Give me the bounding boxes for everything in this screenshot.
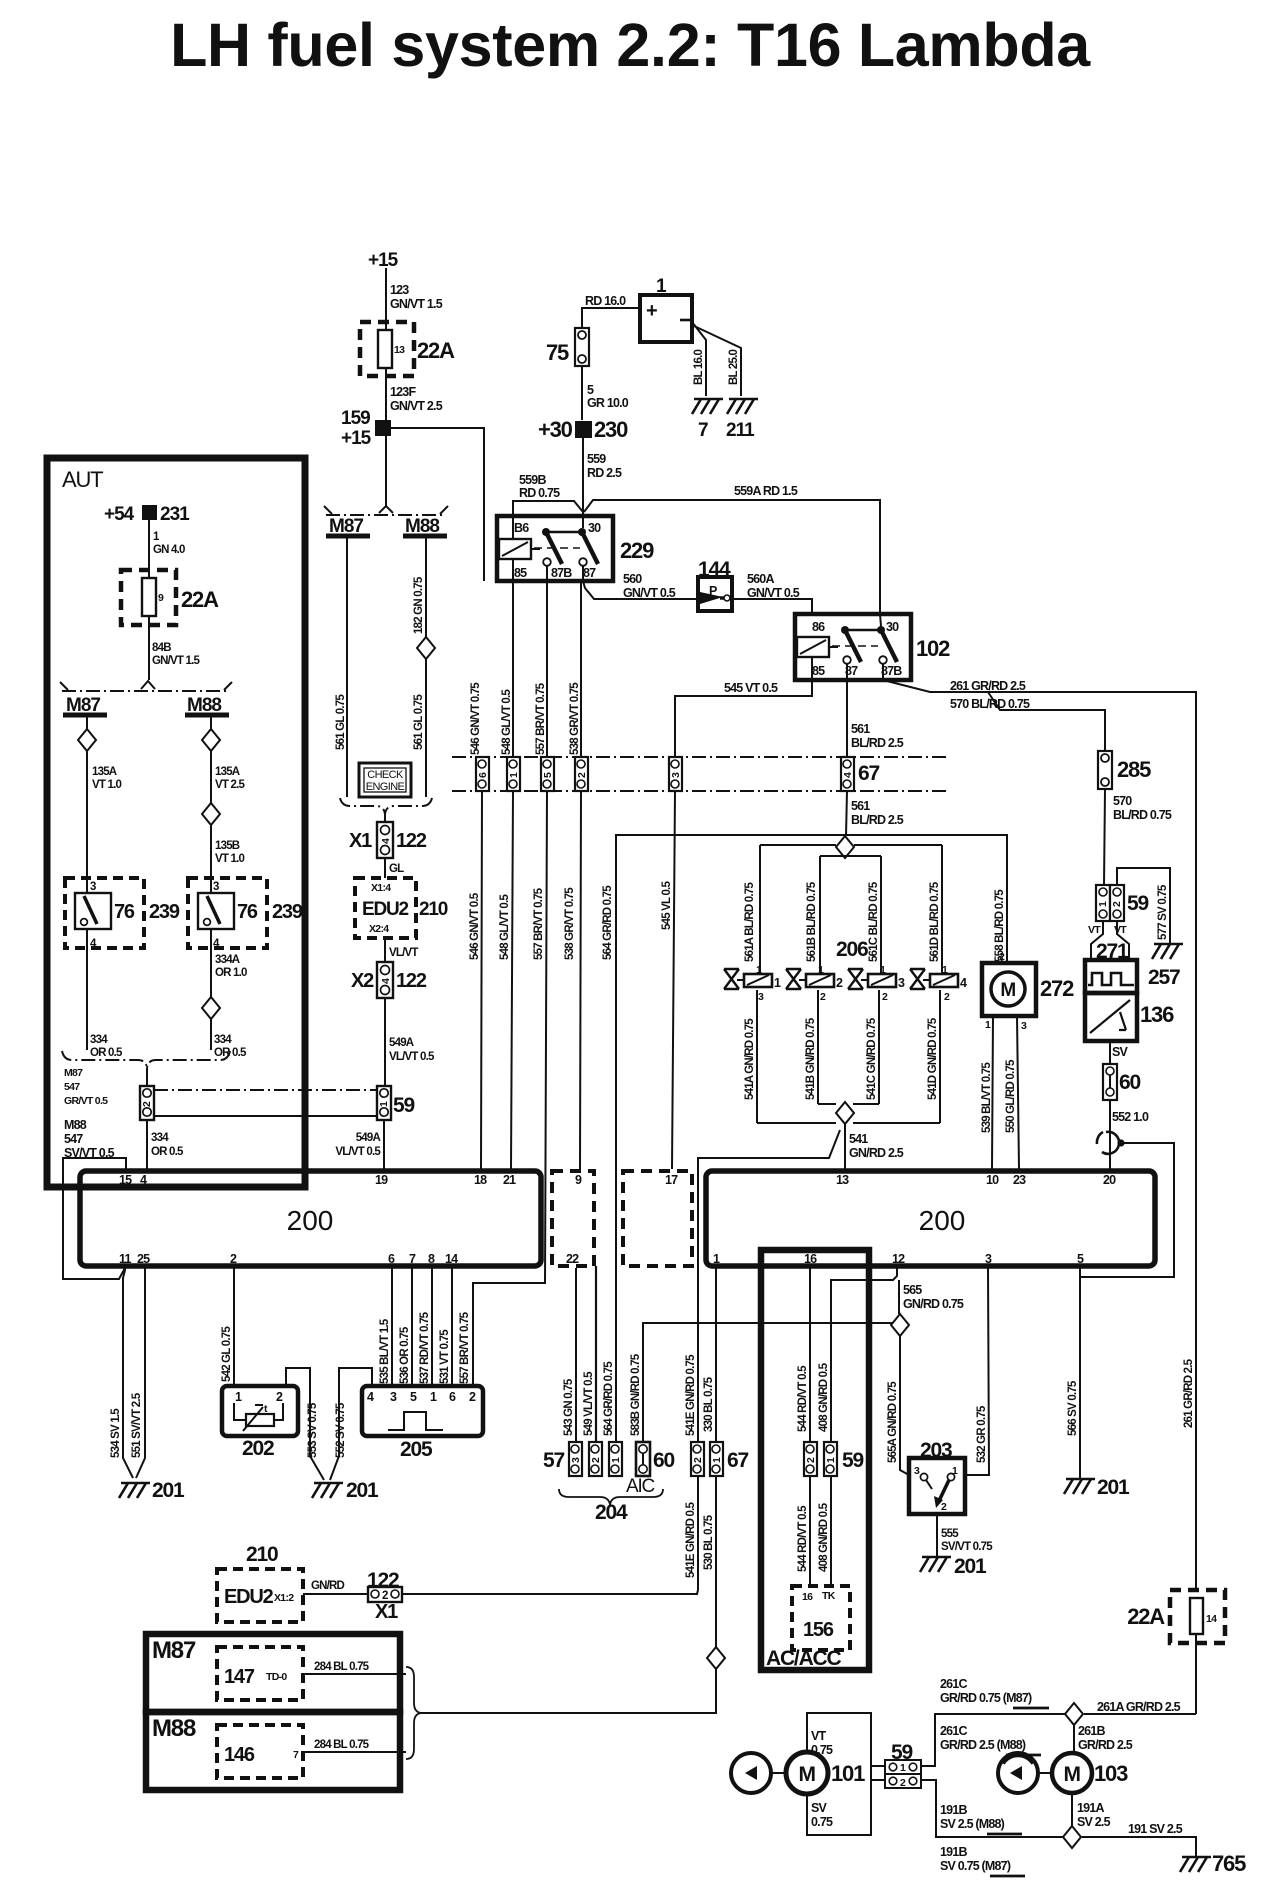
connector 60 AIC bbox=[636, 1442, 650, 1476]
svg-text:+54: +54 bbox=[104, 504, 135, 525]
svg-text:231: 231 bbox=[160, 504, 190, 525]
injector 3 bbox=[848, 964, 905, 1003]
svg-text:547: 547 bbox=[64, 1132, 83, 1146]
wire 561 BL/RD 2.5 bbox=[846, 680, 848, 757]
wire 532 GR 0.75 from pin 3 bbox=[965, 1268, 989, 1475]
wire 408 GN/RD 0.5 bbox=[831, 1268, 897, 1442]
svg-text:552 1.0: 552 1.0 bbox=[1112, 1110, 1149, 1124]
svg-text:+: + bbox=[646, 300, 657, 322]
wires into 271 bbox=[1091, 921, 1103, 960]
svg-text:532 GR 0.75: 532 GR 0.75 bbox=[976, 1405, 988, 1463]
svg-text:GR 10.0: GR 10.0 bbox=[587, 396, 629, 410]
svg-text:GN/VT 0.5: GN/VT 0.5 bbox=[747, 586, 800, 600]
svg-text:1: 1 bbox=[880, 964, 886, 976]
svg-text:18: 18 bbox=[474, 1173, 487, 1187]
wire 543 GN 0.75 from pin 22 bbox=[575, 1268, 577, 1442]
svg-text:85: 85 bbox=[514, 566, 527, 580]
svg-text:239: 239 bbox=[272, 901, 303, 923]
svg-text:BL/RD 2.5: BL/RD 2.5 bbox=[851, 736, 904, 750]
svg-text:1: 1 bbox=[713, 1252, 720, 1266]
svg-text:2: 2 bbox=[820, 991, 826, 1003]
svg-text:122: 122 bbox=[396, 830, 427, 852]
wire bbox=[146, 1068, 148, 1086]
svg-text:545 VT 0.5: 545 VT 0.5 bbox=[724, 681, 778, 695]
svg-text:284 BL 0.75: 284 BL 0.75 bbox=[314, 1739, 370, 1751]
svg-text:GR/RD 2.5: GR/RD 2.5 bbox=[1078, 1738, 1133, 1752]
svg-text:559: 559 bbox=[587, 452, 606, 466]
svg-text:564 GR/RD 0.75: 564 GR/RD 0.75 bbox=[602, 885, 614, 960]
svg-text:191B: 191B bbox=[940, 1803, 967, 1817]
svg-text:182 GN 0.75: 182 GN 0.75 bbox=[413, 576, 425, 634]
wire 552 SV 0.75 bbox=[330, 1368, 372, 1480]
svg-text:561: 561 bbox=[851, 722, 870, 736]
svg-text:1: 1 bbox=[378, 1101, 390, 1107]
svg-text:13: 13 bbox=[836, 1173, 849, 1187]
svg-text:GN/RD 2.5: GN/RD 2.5 bbox=[849, 1146, 904, 1160]
svg-text:RD 2.5: RD 2.5 bbox=[587, 466, 622, 480]
M87/M88 alternative bus (dash-dot) bbox=[62, 690, 230, 692]
svg-text:537 RD/VT 0.75: 537 RD/VT 0.75 bbox=[419, 1311, 431, 1384]
svg-text:530 BL 0.75: 530 BL 0.75 bbox=[703, 1514, 715, 1570]
wires pins 6,7,8,14 bbox=[391, 1268, 393, 1386]
svg-text:1: 1 bbox=[430, 1390, 437, 1404]
svg-text:135A: 135A bbox=[215, 766, 240, 778]
wire 577 SV 0.75 to ground 257 bbox=[1117, 868, 1170, 943]
svg-text:21: 21 bbox=[503, 1173, 516, 1187]
svg-text:67: 67 bbox=[727, 1449, 748, 1472]
connector 59 (lambda) bbox=[1096, 885, 1110, 921]
svg-text:59: 59 bbox=[393, 1094, 414, 1117]
svg-text:5: 5 bbox=[542, 772, 554, 778]
svg-text:1: 1 bbox=[1097, 901, 1109, 907]
wire 261 GR/RD 2.5 bbox=[883, 680, 1196, 1590]
svg-text:583B GN/RD 0.75: 583B GN/RD 0.75 bbox=[630, 1353, 642, 1436]
svg-text:+30: +30 bbox=[538, 417, 573, 442]
lambda sensor 136 bbox=[1085, 993, 1137, 1041]
wire 566 SV 0.75 from pin 5 to ground 201 bbox=[1079, 1268, 1081, 1478]
svg-text:546 GN/VT 0.75: 546 GN/VT 0.75 bbox=[470, 682, 482, 755]
svg-text:555: 555 bbox=[941, 1528, 959, 1540]
brace joining 284 wires bbox=[406, 1667, 421, 1759]
svg-text:1: 1 bbox=[774, 976, 781, 990]
svg-text:+15: +15 bbox=[341, 428, 372, 449]
svg-text:548 GL/VT 0.5: 548 GL/VT 0.5 bbox=[501, 689, 513, 755]
svg-text:159: 159 bbox=[341, 408, 370, 429]
svg-text:557 BR/VT 0.75: 557 BR/VT 0.75 bbox=[535, 682, 547, 755]
svg-text:541A GN/RD 0.75: 541A GN/RD 0.75 bbox=[744, 1018, 756, 1100]
connector 67 pin 2 bbox=[575, 757, 588, 791]
M87 unit box bbox=[146, 1634, 400, 1712]
svg-text:M: M bbox=[799, 1763, 816, 1786]
svg-text:408 GN/RD 0.5: 408 GN/RD 0.5 bbox=[818, 1502, 830, 1572]
fuse 60 bbox=[1103, 1064, 1117, 1100]
wire 530 BL 0.75 with splice diamond bbox=[715, 1476, 717, 1647]
svg-text:211: 211 bbox=[726, 420, 755, 441]
svg-text:4: 4 bbox=[380, 838, 392, 844]
svg-text:561D BL/RD 0.75: 561D BL/RD 0.75 bbox=[929, 881, 941, 962]
diagnostic unit 146 bbox=[217, 1725, 303, 1778]
svg-text:330 BL 0.75: 330 BL 0.75 bbox=[703, 1376, 715, 1432]
wires to grounds bbox=[692, 322, 706, 396]
svg-text:544 RD/VT 0.5: 544 RD/VT 0.5 bbox=[797, 1365, 809, 1432]
svg-text:261C: 261C bbox=[940, 1724, 967, 1738]
svg-text:1: 1 bbox=[825, 1457, 837, 1463]
svg-text:RD 16.0: RD 16.0 bbox=[585, 294, 626, 308]
svg-text:102: 102 bbox=[916, 636, 950, 661]
svg-text:559A RD 1.5: 559A RD 1.5 bbox=[734, 484, 798, 498]
wire 561 BL/RD 2.5 below connector bbox=[846, 791, 847, 836]
svg-text:191 SV 2.5: 191 SV 2.5 bbox=[1128, 1822, 1183, 1836]
svg-text:550 GL/RD 0.75: 550 GL/RD 0.75 bbox=[1005, 1059, 1017, 1133]
svg-text:12: 12 bbox=[892, 1252, 905, 1266]
svg-text:553 SV 0.75: 553 SV 0.75 bbox=[307, 1402, 319, 1458]
connector 59 pin 2 bbox=[804, 1442, 817, 1476]
svg-text:2: 2 bbox=[1111, 901, 1123, 907]
svg-text:AUT: AUT bbox=[62, 467, 103, 492]
svg-text:239: 239 bbox=[149, 901, 180, 923]
svg-text:1: 1 bbox=[711, 1457, 723, 1463]
svg-text:3: 3 bbox=[758, 991, 764, 1003]
svg-text:1: 1 bbox=[818, 964, 824, 976]
svg-text:136: 136 bbox=[1140, 1002, 1174, 1027]
svg-text:11: 11 bbox=[119, 1252, 131, 1266]
wire 5 GR 10.0 bbox=[581, 366, 583, 420]
wire 570 BL/RD 0.75 bbox=[988, 692, 1105, 753]
svg-text:541E GN/RD 0.5: 541E GN/RD 0.5 bbox=[685, 1502, 697, 1578]
column wire 557 BR/VT bbox=[546, 581, 548, 757]
inner loop top bbox=[820, 855, 881, 857]
wire 564/558 top run bbox=[616, 835, 1007, 1442]
svg-text:B6: B6 bbox=[514, 521, 529, 535]
ECU 200 right box bbox=[706, 1171, 1155, 1266]
svg-text:559B: 559B bbox=[519, 473, 546, 487]
svg-text:67: 67 bbox=[858, 762, 879, 785]
svg-text:6: 6 bbox=[449, 1390, 456, 1404]
svg-text:23: 23 bbox=[1013, 1173, 1026, 1187]
relay 102 bbox=[795, 614, 911, 680]
svg-text:2: 2 bbox=[900, 1777, 906, 1789]
M88 wire 334A OR 1.0 bbox=[210, 948, 212, 997]
svg-text:201: 201 bbox=[152, 1479, 185, 1502]
wire GL bbox=[384, 858, 386, 878]
wire 191A SV 2.5 bbox=[1071, 1793, 1073, 1826]
svg-text:1: 1 bbox=[900, 1762, 906, 1774]
svg-text:546 GN/VT 0.5: 546 GN/VT 0.5 bbox=[469, 892, 481, 960]
fuse 285 bbox=[1098, 751, 1112, 789]
svg-text:210: 210 bbox=[246, 1543, 278, 1566]
svg-text:561B BL/RD 0.75: 561B BL/RD 0.75 bbox=[806, 881, 818, 962]
svg-text:9: 9 bbox=[575, 1173, 582, 1187]
svg-text:OR 1.0: OR 1.0 bbox=[215, 967, 247, 979]
svg-text:557 BR/VT 0.75: 557 BR/VT 0.75 bbox=[533, 887, 545, 960]
svg-text:2: 2 bbox=[230, 1252, 237, 1266]
svg-text:549A: 549A bbox=[389, 1037, 414, 1049]
wire 284 BL 0.75 bbox=[303, 1673, 406, 1675]
svg-text:X2:4: X2:4 bbox=[369, 923, 389, 935]
svg-text:SV: SV bbox=[811, 1801, 828, 1815]
svg-text:206: 206 bbox=[836, 938, 868, 961]
svg-text:25: 25 bbox=[137, 1252, 150, 1266]
svg-text:534 SV 1.5: 534 SV 1.5 bbox=[110, 1408, 122, 1458]
wire 564 GR/RD 0.75 bbox=[615, 1266, 617, 1442]
wire 565A GN/RD 0.75 bbox=[900, 1336, 909, 1475]
wires pump to connector bbox=[871, 1765, 885, 1767]
connector 67 pin 1 bbox=[507, 757, 520, 791]
wire 261A GR/RD 2.5 bbox=[1084, 1713, 1196, 1715]
svg-text:541C GN/RD 0.75: 541C GN/RD 0.75 bbox=[866, 1017, 878, 1100]
svg-text:135B: 135B bbox=[215, 840, 240, 852]
column wire 548 GL/VT bbox=[512, 581, 514, 757]
wire pin 25 bbox=[136, 1268, 145, 1478]
wire 191 SV 2.5 to ground 765 bbox=[1082, 1837, 1196, 1856]
svg-text:210: 210 bbox=[419, 899, 448, 920]
wire 565 GN/RD 0.75 from pin 12 bbox=[898, 1280, 900, 1314]
svg-text:561 GL 0.75: 561 GL 0.75 bbox=[413, 694, 425, 750]
svg-text:229: 229 bbox=[620, 538, 654, 563]
svg-text:5: 5 bbox=[410, 1390, 417, 1404]
svg-text:59: 59 bbox=[842, 1449, 863, 1472]
svg-text:5: 5 bbox=[587, 383, 594, 397]
svg-text:135A: 135A bbox=[92, 766, 117, 778]
fuel pump 101 assembly bbox=[807, 1713, 871, 1835]
wire 1 GN 4.0 bbox=[148, 520, 150, 570]
AC unit 156 bbox=[792, 1586, 850, 1650]
columns below connector row to ECU bbox=[481, 791, 482, 1169]
splice diamond top bbox=[836, 836, 854, 858]
svg-text:557 BR/VT 0.75: 557 BR/VT 0.75 bbox=[459, 1311, 471, 1384]
svg-text:101: 101 bbox=[831, 1761, 865, 1786]
ground 211 bbox=[727, 399, 758, 414]
svg-text:202: 202 bbox=[242, 1437, 274, 1460]
svg-text:2: 2 bbox=[469, 1390, 476, 1404]
svg-text:1: 1 bbox=[985, 1019, 991, 1031]
ECU 200 left box bbox=[80, 1171, 541, 1266]
svg-text:OR 0.5: OR 0.5 bbox=[151, 1146, 184, 1158]
svg-text:VT 2.5: VT 2.5 bbox=[215, 779, 245, 791]
switch 76 / 239 (M88) bbox=[188, 878, 267, 948]
svg-text:SV 2.5 (M88): SV 2.5 (M88) bbox=[940, 1817, 1005, 1831]
M87/M88 alternative bus (dash-dot) bbox=[326, 514, 446, 516]
svg-text:SV: SV bbox=[1112, 1045, 1129, 1059]
connector X1 122 bbox=[377, 822, 393, 858]
svg-text:548 GL/VT 0.5: 548 GL/VT 0.5 bbox=[499, 894, 511, 960]
wire 549A VL/VT 0.5 bbox=[384, 998, 386, 1086]
splice diamond bottom bbox=[836, 1102, 854, 1124]
svg-text:VL/VT: VL/VT bbox=[389, 947, 418, 959]
temp sensor 202 bbox=[222, 1386, 298, 1436]
wire 559B RD 0.75 bbox=[513, 501, 583, 539]
svg-text:334: 334 bbox=[214, 1034, 232, 1046]
svg-text:VT: VT bbox=[1088, 924, 1101, 936]
svg-text:2: 2 bbox=[141, 1101, 153, 1107]
svg-text:2: 2 bbox=[276, 1390, 283, 1404]
svg-text:BL/RD 0.75: BL/RD 0.75 bbox=[1113, 808, 1172, 822]
wire bbox=[385, 268, 387, 322]
svg-text:257: 257 bbox=[1148, 966, 1180, 989]
connector 67 pin 5 bbox=[541, 757, 554, 791]
svg-text:4: 4 bbox=[380, 978, 392, 984]
wire 544 RD/VT 0.5 from pin 16 bbox=[809, 1268, 811, 1442]
injector 2 bbox=[786, 964, 843, 1003]
svg-text:3: 3 bbox=[985, 1252, 992, 1266]
wire VL/VT bbox=[384, 938, 386, 962]
EDU2 unit 210 bbox=[355, 878, 416, 938]
wire 542 GL 0.75 pin 2 bbox=[233, 1268, 235, 1386]
svg-text:87: 87 bbox=[583, 566, 596, 580]
svg-text:1: 1 bbox=[235, 1390, 242, 1404]
svg-text:GN/VT 0.5: GN/VT 0.5 bbox=[623, 586, 676, 600]
svg-text:2: 2 bbox=[805, 1457, 817, 1463]
wire bbox=[385, 436, 387, 506]
outer loop top bbox=[760, 844, 836, 846]
wire 191B to pump connector bbox=[920, 1780, 1063, 1837]
svg-text:X1: X1 bbox=[375, 1601, 398, 1623]
svg-text:531 VT 0.75: 531 VT 0.75 bbox=[439, 1329, 451, 1384]
svg-text:16: 16 bbox=[804, 1252, 817, 1266]
svg-text:60: 60 bbox=[653, 1449, 674, 1472]
AUT enclosure box bbox=[47, 458, 305, 1187]
svg-text:535 BL/VT 1.5: 535 BL/VT 1.5 bbox=[379, 1318, 391, 1384]
svg-text:22A: 22A bbox=[181, 587, 219, 612]
svg-text:ENGINE: ENGINE bbox=[366, 781, 405, 793]
svg-text:9: 9 bbox=[158, 592, 164, 604]
column wire 538 GR/VT bbox=[580, 581, 582, 757]
injector feed wires down bbox=[759, 845, 761, 975]
svg-text:7: 7 bbox=[409, 1252, 416, 1266]
svg-text:122: 122 bbox=[396, 970, 427, 992]
wire 559 RD 2.5 bbox=[582, 438, 584, 515]
wire 570 BL/RD 0.75 bbox=[1104, 789, 1105, 885]
svg-text:RD 0.75: RD 0.75 bbox=[519, 486, 560, 500]
svg-text:30: 30 bbox=[588, 521, 601, 535]
M88 branch wire bbox=[210, 717, 212, 729]
wire pin 11 bbox=[123, 1268, 133, 1478]
M88 unit box bbox=[146, 1712, 400, 1790]
wire M88 branch 182 GN 0.75 bbox=[425, 536, 427, 637]
svg-text:560: 560 bbox=[623, 572, 642, 586]
svg-text:545 VL 0.5: 545 VL 0.5 bbox=[661, 881, 673, 930]
svg-text:VT 1.0: VT 1.0 bbox=[215, 853, 244, 865]
svg-text:570: 570 bbox=[1113, 794, 1132, 808]
outer loop bottom bbox=[757, 1122, 836, 1124]
svg-text:GR/RD 0.75 (M87): GR/RD 0.75 (M87) bbox=[940, 1691, 1032, 1705]
connector 67 pin 4 bbox=[841, 757, 854, 791]
diagnostic unit 147 bbox=[217, 1647, 303, 1700]
ground 201 bbox=[119, 1483, 150, 1498]
wires 539 / 550 to ECU bbox=[992, 1016, 993, 1169]
svg-text:201: 201 bbox=[1097, 1476, 1130, 1499]
svg-text:334: 334 bbox=[90, 1034, 108, 1046]
svg-text:204: 204 bbox=[595, 1501, 628, 1524]
svg-text:+15: +15 bbox=[368, 250, 399, 271]
splice diamond bbox=[417, 637, 435, 659]
svg-text:EDU2: EDU2 bbox=[362, 899, 409, 920]
svg-text:1: 1 bbox=[508, 772, 520, 778]
svg-text:AIC: AIC bbox=[626, 1476, 655, 1497]
svg-text:22A: 22A bbox=[417, 338, 455, 363]
switch 76 / 239 (M87) bbox=[65, 878, 144, 948]
throttle switch 205 bbox=[362, 1386, 483, 1436]
svg-text:538 GR/VT 0.75: 538 GR/VT 0.75 bbox=[564, 887, 576, 960]
merge brace (dash-dot) bbox=[340, 798, 385, 814]
svg-text:285: 285 bbox=[1117, 757, 1151, 782]
svg-text:3: 3 bbox=[90, 881, 96, 893]
svg-text:13: 13 bbox=[394, 344, 405, 356]
svg-text:541D GN/RD 0.75: 541D GN/RD 0.75 bbox=[927, 1017, 939, 1100]
svg-text:VT: VT bbox=[811, 1729, 827, 1743]
svg-text:20: 20 bbox=[1103, 1173, 1116, 1187]
svg-text:VT: VT bbox=[1114, 924, 1127, 936]
connector X2 122 bbox=[377, 962, 393, 998]
svg-text:76: 76 bbox=[237, 901, 258, 923]
svg-text:334: 334 bbox=[151, 1132, 169, 1144]
svg-text:544 RD/VT 0.5: 544 RD/VT 0.5 bbox=[797, 1505, 809, 1572]
svg-text:565A GN/RD 0.75: 565A GN/RD 0.75 bbox=[887, 1381, 899, 1463]
svg-text:BL/RD 2.5: BL/RD 2.5 bbox=[851, 813, 904, 827]
wire 84B GN/VT 1.5 bbox=[148, 616, 150, 680]
wire 541E branch to left bbox=[698, 1130, 840, 1590]
svg-text:6: 6 bbox=[477, 772, 489, 778]
svg-text:261 GR/RD 2.5: 261 GR/RD 2.5 bbox=[1183, 1358, 1195, 1428]
svg-text:22A: 22A bbox=[1127, 1604, 1165, 1629]
svg-text:564 GR/RD 0.75: 564 GR/RD 0.75 bbox=[603, 1361, 615, 1436]
svg-text:M88: M88 bbox=[64, 1118, 87, 1132]
svg-text:551 SV/VT 2.5: 551 SV/VT 2.5 bbox=[131, 1392, 143, 1458]
svg-text:OR 0.5: OR 0.5 bbox=[90, 1047, 123, 1059]
wire 330 BL 0.75 from pin 1 bbox=[715, 1268, 717, 1442]
svg-text:284 BL 0.75: 284 BL 0.75 bbox=[314, 1661, 370, 1673]
svg-text:10: 10 bbox=[986, 1173, 999, 1187]
svg-text:M87: M87 bbox=[152, 1637, 196, 1664]
svg-text:261A GR/RD 2.5: 261A GR/RD 2.5 bbox=[1097, 1700, 1181, 1714]
svg-text:2: 2 bbox=[941, 1501, 947, 1513]
svg-text:1: 1 bbox=[942, 964, 948, 976]
svg-text:87B: 87B bbox=[881, 664, 902, 678]
svg-text:230: 230 bbox=[594, 417, 628, 442]
svg-text:GL: GL bbox=[389, 863, 404, 875]
svg-text:565: 565 bbox=[903, 1283, 922, 1297]
AC/ACC group box bbox=[761, 1250, 869, 1670]
svg-text:3: 3 bbox=[670, 772, 682, 778]
svg-text:201: 201 bbox=[346, 1479, 379, 1502]
svg-text:X1:2: X1:2 bbox=[274, 1592, 294, 1604]
svg-text:191A: 191A bbox=[1077, 1801, 1104, 1815]
svg-text:272: 272 bbox=[1040, 976, 1074, 1001]
svg-text:201: 201 bbox=[954, 1555, 987, 1578]
svg-text:536 OR 0.75: 536 OR 0.75 bbox=[399, 1326, 411, 1384]
svg-text:560A: 560A bbox=[747, 572, 774, 586]
shielded loop symbol bbox=[1102, 1132, 1119, 1154]
svg-text:SV 2.5: SV 2.5 bbox=[1077, 1815, 1111, 1829]
brace 204 bbox=[559, 1489, 663, 1505]
svg-text:549 VL/VT 0.5: 549 VL/VT 0.5 bbox=[583, 1371, 595, 1436]
wire to column 546 bbox=[391, 428, 484, 581]
svg-text:GN/VT 1.5: GN/VT 1.5 bbox=[390, 297, 443, 311]
connector 67 pin 1 bbox=[710, 1442, 723, 1476]
svg-text:GN/VT 2.5: GN/VT 2.5 bbox=[390, 399, 443, 413]
svg-text:60: 60 bbox=[1119, 1071, 1140, 1094]
svg-text:103: 103 bbox=[1094, 1761, 1128, 1786]
connector 67 pin 2 bbox=[691, 1442, 704, 1476]
wire 284 BL 0.75 bbox=[303, 1751, 406, 1753]
svg-text:GN/RD: GN/RD bbox=[311, 1580, 345, 1592]
svg-text:VT 1.0: VT 1.0 bbox=[92, 779, 121, 791]
svg-text:X2: X2 bbox=[351, 970, 374, 992]
svg-text:14: 14 bbox=[1206, 1613, 1217, 1625]
svg-text:561C BL/RD 0.75: 561C BL/RD 0.75 bbox=[868, 881, 880, 962]
svg-text:15: 15 bbox=[119, 1173, 132, 1187]
svg-text:561A BL/RD 0.75: 561A BL/RD 0.75 bbox=[744, 882, 756, 962]
